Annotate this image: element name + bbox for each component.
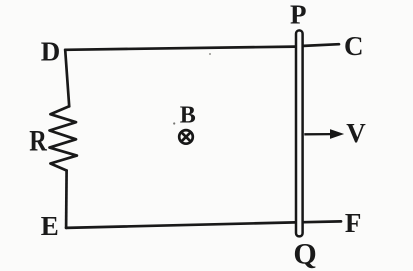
wire left vertical resistor to E [65, 171, 68, 228]
velocity arrow V [304, 130, 342, 138]
scan speck below top rail [209, 53, 211, 55]
conducting rod PQ [296, 30, 303, 236]
resistor R [50, 106, 77, 170]
svg-text:E: E [41, 211, 59, 241]
svg-text:V: V [346, 118, 366, 148]
svg-text:F: F [345, 208, 362, 238]
wire left vertical D to resistor [65, 50, 69, 107]
svg-text:C: C [344, 31, 364, 61]
svg-text:D: D [41, 37, 61, 67]
svg-text:P: P [290, 0, 307, 30]
wire top rail D to P [65, 47, 295, 50]
wire bottom rail E to Q [66, 222, 295, 228]
wire stub rod to F [304, 220, 341, 224]
wire stub rod to C [304, 44, 339, 46]
svg-text:Q: Q [293, 237, 316, 270]
svg-text:B: B [180, 102, 196, 128]
svg-text:R: R [29, 125, 47, 158]
scan speck near B [173, 122, 175, 124]
field symbol B circle-cross [179, 130, 193, 144]
